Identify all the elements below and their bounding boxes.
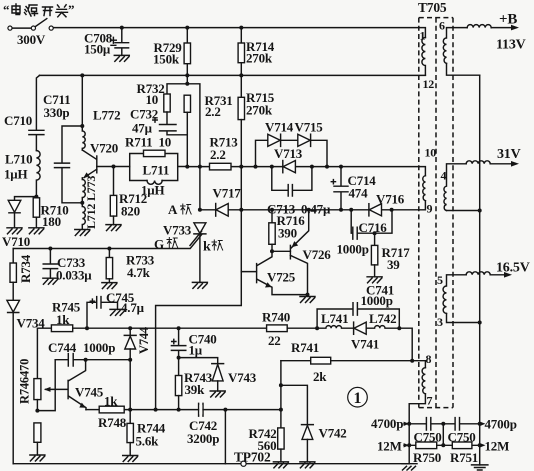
svg-text:V741: V741 <box>351 337 379 352</box>
svg-text:9: 9 <box>427 202 433 216</box>
node pin7 line junction 12M row <box>407 443 411 447</box>
inductor L741 <box>317 326 353 329</box>
node low line junction R744 <box>128 408 132 412</box>
label "电源开关" (power switch) <box>3 2 74 17</box>
capacitor C750 (left) covered above; node mid junction <box>441 422 445 426</box>
svg-text:300V: 300V <box>17 32 46 47</box>
svg-text:L711: L711 <box>143 163 170 178</box>
svg-text:L710: L710 <box>5 152 32 167</box>
svg-text:1μH: 1μH <box>141 182 164 197</box>
wire G-pole line <box>13 235 201 249</box>
transformer T705 dashed frame <box>419 18 453 408</box>
svg-text:1000p: 1000p <box>83 340 115 355</box>
svg-text:4.7μ: 4.7μ <box>121 300 145 315</box>
svg-text:150k: 150k <box>153 52 180 67</box>
node branch left junction <box>254 165 258 169</box>
node C716/R717 junction <box>373 231 377 235</box>
svg-text:390: 390 <box>278 226 297 241</box>
wire mid link 4700p to 12M row <box>442 424 444 446</box>
zener diode V744 <box>124 328 136 360</box>
node R716/V725/V726 junction <box>270 249 274 253</box>
capacitor C714 <box>331 165 348 210</box>
node C740/R743/V743 junction <box>177 356 181 360</box>
svg-text:V725: V725 <box>267 269 296 284</box>
resistor R729 <box>184 26 190 76</box>
diode V741 <box>354 322 367 334</box>
resistor R717 <box>367 233 382 283</box>
wire 31V output with arrow <box>490 161 519 167</box>
svg-text:39: 39 <box>387 257 400 272</box>
resistor R712 <box>106 165 121 231</box>
svg-text:270k: 270k <box>246 103 273 118</box>
svg-text:0.47μ: 0.47μ <box>301 201 331 216</box>
svg-text:5.6k: 5.6k <box>136 434 160 449</box>
svg-text:4700p: 4700p <box>371 416 403 431</box>
svg-text:A: A <box>168 202 178 217</box>
resistor R732 <box>164 75 190 112</box>
svg-text:L741: L741 <box>321 311 348 326</box>
svg-text:R734: R734 <box>18 254 33 283</box>
svg-text:1000p: 1000p <box>361 293 393 308</box>
svg-text:R748: R748 <box>98 415 127 430</box>
wire top rail 300V to transformer pin 1 <box>53 28 425 38</box>
node V725/V726 emitter-collector ground junction <box>306 293 310 297</box>
wire right-hand vertical bus <box>479 75 481 465</box>
capacitor C708 <box>111 26 130 62</box>
resistor R740 <box>267 325 288 332</box>
wire main low line <box>124 409 281 411</box>
node main wire junction R714 column <box>239 165 243 169</box>
inductor L773 <box>82 178 85 203</box>
svg-text:T705: T705 <box>418 0 447 15</box>
label k极 (cathode) <box>203 240 223 255</box>
transformer core dashed line <box>435 18 437 408</box>
resistor R714 <box>238 26 244 76</box>
resistor R750 <box>416 442 437 449</box>
node main wire junction anode column <box>198 165 202 169</box>
resistor R745 <box>37 325 72 379</box>
node lower rail junction C714 <box>339 208 343 212</box>
svg-text:V742: V742 <box>319 426 347 441</box>
node C744/V745 collector junction <box>84 358 88 362</box>
wire V714/V715 branch <box>256 140 328 166</box>
L711 shield box with R711 <box>130 150 188 184</box>
svg-text:+B: +B <box>499 12 517 28</box>
svg-text:R740: R740 <box>262 309 290 324</box>
inductor 31V filter <box>466 161 490 164</box>
svg-text:V733: V733 <box>163 222 192 237</box>
svg-text:V710: V710 <box>2 234 30 249</box>
label G极 (gate) <box>154 237 178 252</box>
node low line junction control column <box>154 408 158 412</box>
node low line junction TP drop <box>223 408 227 412</box>
capacitor C745 <box>87 297 125 329</box>
node mid line junction regulator loop <box>315 326 319 330</box>
node rail junction R729 <box>185 73 189 77</box>
svg-text:16.5V: 16.5V <box>496 261 530 276</box>
capacitor C710 <box>29 75 44 150</box>
diode V714 <box>268 134 281 146</box>
wire branch to thyristor anode column <box>187 84 200 210</box>
node mid line junction V744 <box>128 326 132 330</box>
node G line junction C733 <box>48 247 52 251</box>
svg-text:474: 474 <box>349 185 369 200</box>
wire mid control line <box>73 327 317 329</box>
wire +B output with arrow <box>491 25 519 31</box>
arrow 12M left <box>404 443 410 447</box>
node low line junction R743 <box>177 408 181 412</box>
node lower rail junction R716 <box>270 208 274 212</box>
node pin8 wire junction <box>410 359 414 363</box>
svg-text:5: 5 <box>437 273 443 287</box>
node mid line junction C740 <box>177 326 181 330</box>
svg-text:7: 7 <box>427 394 433 408</box>
resistor R742 <box>273 428 288 468</box>
svg-text:22: 22 <box>268 333 281 348</box>
node right bus junction 16.5V return <box>478 321 482 325</box>
secondary winding pins 5-3 (16.5V) <box>443 275 466 314</box>
capacitor C741 with loop <box>317 303 399 329</box>
resistor R741 <box>281 357 426 367</box>
svg-text:8: 8 <box>426 352 432 366</box>
svg-text:12: 12 <box>423 77 435 91</box>
wire bottom return rail <box>13 463 409 465</box>
diode V734 <box>7 300 20 463</box>
resistor R744 <box>123 410 138 462</box>
wire 16.5V output with arrow <box>490 272 512 278</box>
wire R741 left column <box>280 361 282 428</box>
node mid line junction C745 <box>85 326 89 330</box>
svg-text:V715: V715 <box>295 120 324 135</box>
capacitor C742 <box>199 403 203 416</box>
resistor R715 <box>238 75 244 166</box>
inductor L710 <box>36 151 40 197</box>
resistor R716 <box>269 210 275 252</box>
svg-text:R711: R711 <box>125 135 152 150</box>
node main wire junction R731 column <box>185 165 189 169</box>
svg-text:4.7k: 4.7k <box>127 265 151 280</box>
wire pin4 winding bottom to right bus <box>447 210 480 212</box>
inductor L772 <box>82 126 85 150</box>
potentiometer R746 <box>34 379 68 411</box>
svg-text:V717: V717 <box>213 186 242 201</box>
capacitor C713 <box>272 167 312 196</box>
node low line end junction <box>279 408 283 412</box>
arrow 4700p right <box>480 422 486 426</box>
wire lower rail to transformer pin 9 <box>241 201 425 210</box>
svg-text:C744: C744 <box>48 340 77 355</box>
svg-text:47μ: 47μ <box>132 120 153 135</box>
wire C744 left to potentiometer bottom <box>37 360 55 411</box>
node C713 loop right junction <box>310 165 314 169</box>
svg-text:V720: V720 <box>90 141 118 156</box>
resistor R747 <box>30 423 45 461</box>
svg-text:10: 10 <box>159 135 172 150</box>
resistor R751 <box>452 442 472 449</box>
primary winding pins 1-12 <box>422 38 425 76</box>
node L773/L712/C711 junction <box>80 201 84 205</box>
capacitor C733 <box>43 249 58 285</box>
node pot bottom junction <box>35 409 39 413</box>
label A极 (anode) <box>168 202 191 217</box>
node A-pole junction <box>198 208 202 212</box>
svg-text:V744: V744 <box>137 326 151 354</box>
svg-text:820: 820 <box>121 204 140 219</box>
ground right bus <box>472 465 488 470</box>
svg-text:V714: V714 <box>265 120 294 135</box>
svg-text:150μ: 150μ <box>84 41 111 56</box>
resistor R733 <box>102 249 117 289</box>
svg-text:1000p: 1000p <box>337 241 369 256</box>
node rail junction L772 column <box>80 73 84 77</box>
zener diode V743 <box>179 358 226 397</box>
primary winding pins 8-7 <box>422 368 425 394</box>
capacitor C740 <box>171 328 185 357</box>
node V742 branch junction <box>279 383 283 387</box>
svg-text:V743: V743 <box>228 370 257 385</box>
node L710/R710/V710 junction <box>34 195 38 199</box>
svg-text:G: G <box>154 237 164 252</box>
diode V716 <box>369 204 382 216</box>
capacitor C732 <box>153 112 188 135</box>
node branch right junction <box>325 165 329 169</box>
svg-text:R751: R751 <box>450 450 478 465</box>
svg-text:10: 10 <box>425 146 437 160</box>
wire loop output to pin 8 line <box>399 328 412 361</box>
svg-text:V726: V726 <box>303 247 332 262</box>
svg-text:0.033μ: 0.033μ <box>56 268 92 283</box>
wire 4700p row <box>404 418 480 430</box>
transistor V725 (NPN) <box>241 251 307 294</box>
svg-text:330p: 330p <box>44 105 70 120</box>
resistor R748 <box>86 406 124 413</box>
capacitor C716 <box>351 210 392 239</box>
svg-text:C710: C710 <box>4 113 32 128</box>
primary winding pins 10-9 <box>423 176 426 201</box>
transistor V726 (PNP) <box>272 210 309 295</box>
thyristor V733 <box>190 223 207 289</box>
svg-text:113V: 113V <box>496 38 526 53</box>
svg-text:R741: R741 <box>291 340 319 355</box>
svg-text:6: 6 <box>439 19 445 33</box>
ground L712 <box>75 230 90 236</box>
svg-text:12M: 12M <box>485 439 510 454</box>
svg-text:2.2: 2.2 <box>210 147 226 162</box>
node 12M mid junction <box>441 443 445 447</box>
svg-text:39k: 39k <box>185 382 206 397</box>
ground bottom rail <box>402 464 417 470</box>
capacitor C711 (branch) <box>55 126 83 203</box>
svg-text:1μ: 1μ <box>189 343 203 358</box>
arrow 12M right <box>480 443 486 447</box>
resistor R713 <box>210 163 232 170</box>
node lower rail junction V726 emitter <box>307 208 311 212</box>
node pin7 line junction 4700p row <box>407 422 411 426</box>
svg-text:31V: 31V <box>497 147 521 162</box>
wire pin3 winding bottom to right bus <box>447 314 480 323</box>
inductor +B filter <box>467 25 491 28</box>
svg-text:2.2: 2.2 <box>205 104 221 119</box>
svg-text:L772: L772 <box>93 108 120 123</box>
diode V713 <box>283 161 296 173</box>
svg-text:k: k <box>203 240 211 255</box>
node V716 left junction <box>349 208 353 212</box>
inductor L742 <box>367 326 400 329</box>
resistor R731 <box>184 95 190 166</box>
svg-text:560: 560 <box>258 438 277 453</box>
inductor L712 <box>82 203 85 229</box>
node V717 cathode junction <box>239 208 243 212</box>
node right bus junction 31V return <box>478 209 482 213</box>
svg-text:180: 180 <box>42 214 61 229</box>
wire pin7 to bottom network <box>409 394 425 464</box>
wire pin6 winding bottom to right bus <box>447 63 480 75</box>
diode V717 <box>200 204 241 217</box>
secondary winding pin 4 (31V) <box>444 164 466 211</box>
node right bus junction 4700p <box>478 422 482 426</box>
inductor 16.5V filter <box>466 272 490 275</box>
wire L772 column from rail <box>81 75 83 126</box>
node rail junction R714/R715 <box>239 73 243 77</box>
arrow 4700p left <box>404 422 410 426</box>
wire TP702 drop <box>224 410 226 464</box>
node V744/C744 junction <box>128 358 132 362</box>
svg-text:V745: V745 <box>75 385 104 400</box>
switch S (power switch) <box>8 19 53 31</box>
wire R715 column down to V725 base corner <box>156 167 242 410</box>
svg-text:270k: 270k <box>246 51 273 66</box>
svg-text:3: 3 <box>437 315 443 329</box>
node C713 loop left junction <box>270 165 274 169</box>
node loop right junction <box>397 326 401 330</box>
svg-text:4700p: 4700p <box>485 416 517 431</box>
zener diode V742 <box>281 385 315 468</box>
svg-text:V713: V713 <box>274 146 303 161</box>
svg-text:L712 L773: L712 L773 <box>84 176 98 229</box>
svg-text:10: 10 <box>146 92 159 107</box>
svg-text:R750: R750 <box>413 450 441 465</box>
secondary winding pin 6 (+B) <box>443 28 467 64</box>
resistor R710 <box>29 198 44 234</box>
node G line junction R733 <box>107 247 111 251</box>
capacitor C744 <box>55 354 130 366</box>
wire V744 column to low line <box>129 360 131 410</box>
svg-text:1μH: 1μH <box>4 166 27 181</box>
svg-text:R746470: R746470 <box>18 359 32 404</box>
transistor V720 <box>82 150 129 178</box>
node V716 right junction <box>390 208 394 212</box>
wire main oscillator line to transformer pin 10 <box>187 167 425 176</box>
label circled 1 <box>348 387 368 407</box>
wire 12M row <box>404 444 480 446</box>
svg-text:1: 1 <box>354 390 362 407</box>
svg-text:”: ” <box>68 2 74 17</box>
svg-text:“: “ <box>3 2 10 17</box>
transistor V745 (NPN) <box>68 360 86 410</box>
svg-text:3200p: 3200p <box>187 431 219 446</box>
svg-text:L742: L742 <box>369 311 396 326</box>
node C711 branch junction <box>80 124 84 128</box>
resistor R743 <box>175 358 181 410</box>
svg-text:12M: 12M <box>377 439 402 454</box>
test point TP702 <box>241 461 246 466</box>
wire second rail to transformer pin 12 <box>40 74 426 76</box>
node right bus junction 12M <box>478 443 482 447</box>
diode V710 <box>7 197 36 234</box>
svg-text:4: 4 <box>441 169 447 183</box>
resistor R734 <box>10 249 16 301</box>
svg-text:2k: 2k <box>313 369 327 384</box>
ground V725/V726 <box>300 297 315 303</box>
diode V715 <box>298 134 311 146</box>
